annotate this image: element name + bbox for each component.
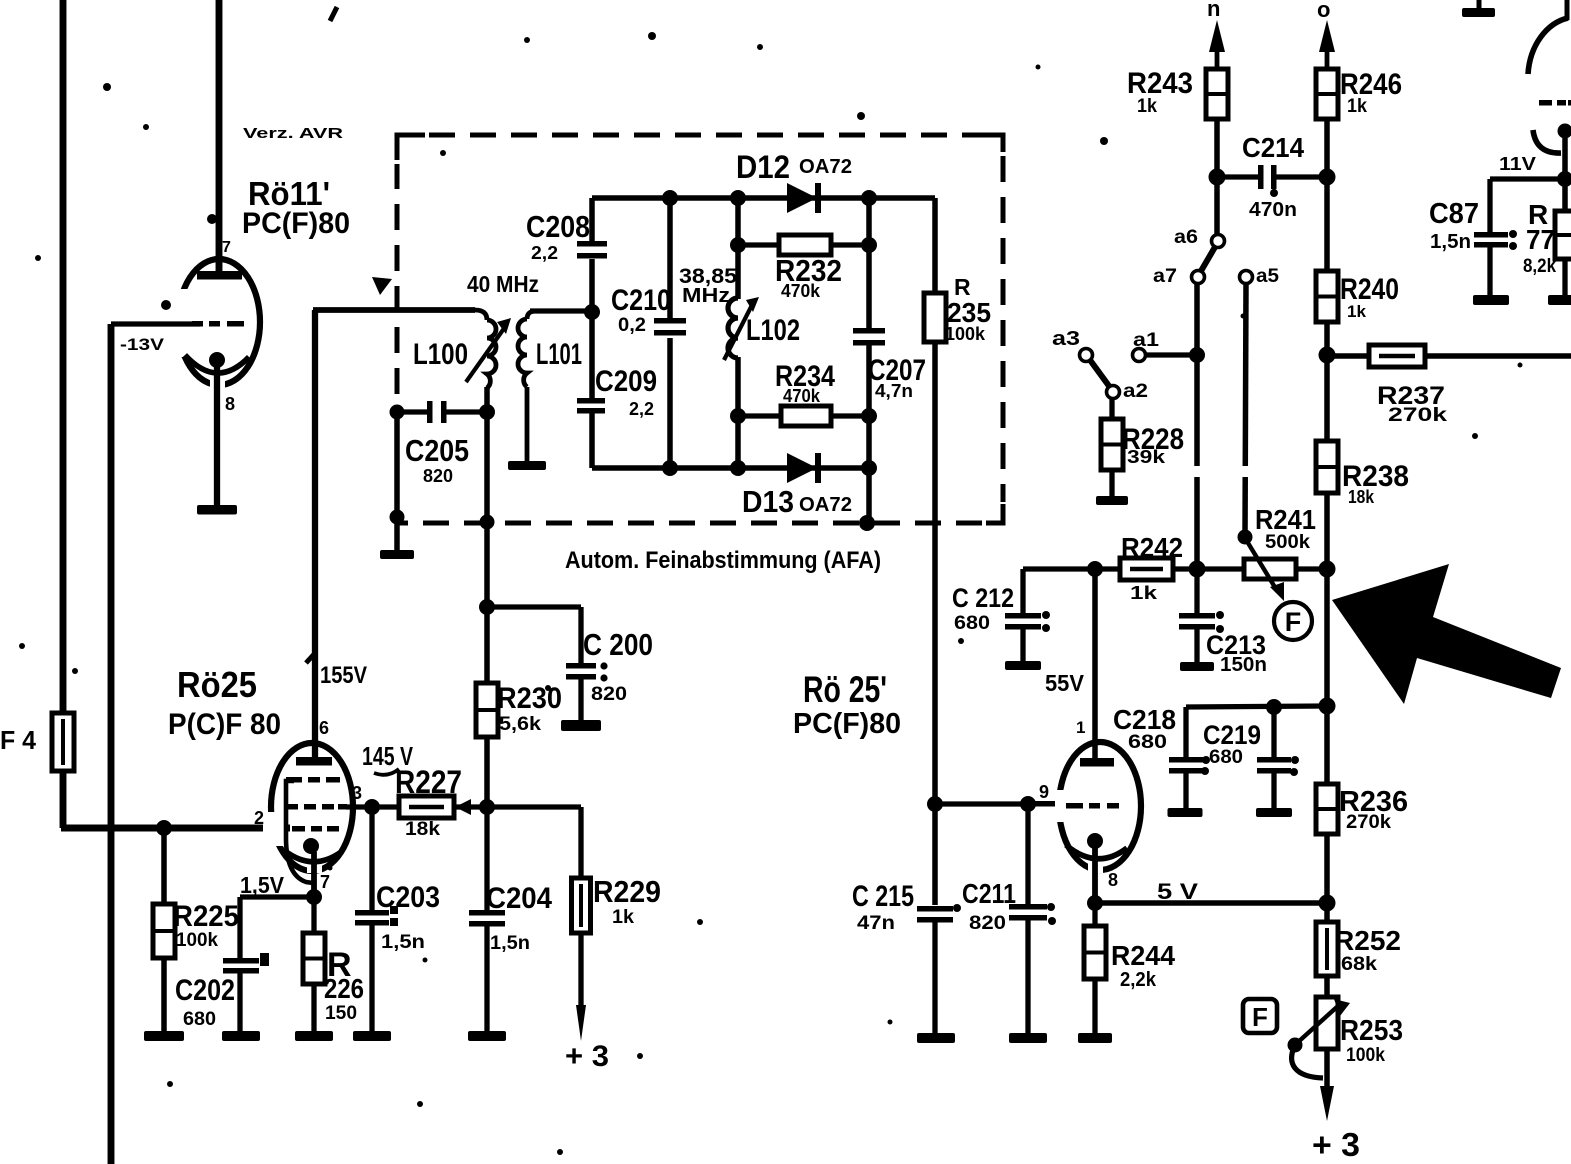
junction C205 right <box>479 404 495 420</box>
wire R234 left lead <box>738 413 781 418</box>
svg-text:0,2: 0,2 <box>618 315 646 336</box>
wire R230 column <box>484 524 490 807</box>
svg-text:Autom. Feinabstimmung (AFA): Autom. Feinabstimmung (AFA) <box>565 547 881 574</box>
svg-text:R252: R252 <box>1334 925 1401 956</box>
svg-text:a5: a5 <box>1256 266 1279 287</box>
svg-text:4,7n: 4,7n <box>875 381 913 401</box>
tube Rö25' PC(F)80 <box>1050 742 1141 873</box>
junction C214 right <box>1319 169 1336 186</box>
wire R77 to ground <box>1562 259 1567 296</box>
ground R226 <box>295 1031 333 1041</box>
svg-text:R229: R229 <box>593 874 661 909</box>
svg-text:a3: a3 <box>1052 328 1080 350</box>
junction C203 top <box>364 799 380 815</box>
ground below AFA box left <box>380 550 414 559</box>
resistor F4 <box>52 713 74 771</box>
svg-text:OA72: OA72 <box>799 494 852 516</box>
Rö25 anode plate <box>296 757 332 766</box>
capacitor C212 <box>1005 613 1041 630</box>
wire Rö25 anode (pin6) up to tank <box>312 310 318 758</box>
svg-text:77: 77 <box>1526 224 1555 255</box>
svg-text:2,2: 2,2 <box>531 243 558 263</box>
junction a5 wiper <box>1238 530 1253 545</box>
wire C200 top <box>578 607 583 663</box>
svg-text:PC(F)80: PC(F)80 <box>242 207 350 240</box>
svg-text:a6: a6 <box>1174 227 1198 248</box>
junction top C210 <box>662 190 678 206</box>
Rö25 cathode arc <box>285 851 341 862</box>
tube Rö11' PC(F)80 <box>170 259 260 388</box>
wire left bus vertical <box>60 0 67 828</box>
wire to C211 <box>1025 804 1030 904</box>
svg-text:C211: C211 <box>962 878 1016 909</box>
wire a1 to bus <box>1146 352 1197 357</box>
svg-text:-13V: -13V <box>120 335 165 354</box>
wire to C218/C219 <box>1186 706 1327 707</box>
wire R236 to R252 <box>1324 834 1330 922</box>
svg-text:Rö25: Rö25 <box>177 664 257 705</box>
svg-text:155V: 155V <box>320 662 367 689</box>
C202 side mark <box>260 953 269 966</box>
wire pin9 node <box>935 801 1030 806</box>
wire R225 to ground <box>161 958 167 1032</box>
ground R228 <box>1096 496 1128 505</box>
capacitor C203 <box>355 910 389 926</box>
arrow up o <box>1319 20 1335 69</box>
svg-text:18k: 18k <box>1348 487 1375 507</box>
svg-text:1k: 1k <box>612 907 634 928</box>
junction cathode/R244 <box>1087 895 1103 911</box>
svg-text:680: 680 <box>954 613 990 634</box>
resistor R236 <box>1316 784 1338 834</box>
resistor R227 <box>399 796 454 818</box>
junction L101/C208 node <box>584 304 600 320</box>
wire tank top feed <box>313 307 475 313</box>
wire a7 down to R242 node <box>1194 284 1200 569</box>
wire Rö25' cathode to 5V node <box>1092 848 1098 903</box>
svg-text:L102: L102 <box>746 314 800 347</box>
svg-text:2,2k: 2,2k <box>1120 969 1157 991</box>
svg-text:820: 820 <box>969 913 1006 934</box>
svg-text:7: 7 <box>320 872 330 892</box>
resistor R244 <box>1084 926 1106 979</box>
svg-text:8,2k: 8,2k <box>1523 256 1556 277</box>
svg-text:R225: R225 <box>173 900 239 933</box>
svg-text:F 4: F 4 <box>0 725 37 755</box>
junction 5V right <box>1319 895 1336 912</box>
ground C204 <box>468 1031 506 1041</box>
ground R244 <box>1078 1033 1112 1043</box>
svg-text:7: 7 <box>222 239 231 256</box>
AFA dashed box <box>397 135 1003 523</box>
specks <box>103 83 111 91</box>
svg-text:470k: 470k <box>781 281 821 301</box>
svg-text:55V: 55V <box>1045 670 1085 696</box>
svg-text:P(C)F 80: P(C)F 80 <box>168 708 281 741</box>
wire C210 column <box>667 198 673 468</box>
wire R253 down <box>1324 1049 1330 1090</box>
svg-text:D12: D12 <box>736 149 790 185</box>
svg-text:18k: 18k <box>405 819 440 840</box>
svg-text:C209: C209 <box>595 365 657 398</box>
svg-text:C205: C205 <box>405 433 469 468</box>
svg-text:MHz: MHz <box>682 285 730 307</box>
C218 side dots <box>1202 756 1210 764</box>
svg-text:1: 1 <box>1076 718 1085 737</box>
switch contact a6 <box>1212 235 1225 248</box>
resistor R226 <box>303 933 325 984</box>
resistor R240 <box>1316 271 1338 322</box>
arrow +3 (R229) <box>576 1005 586 1041</box>
svg-text:270k: 270k <box>1388 405 1448 426</box>
Rö25' cathode dot <box>1087 833 1103 849</box>
junction C219 <box>1266 699 1282 715</box>
gap for C207 plates <box>863 328 875 344</box>
ground C211 <box>1009 1033 1047 1043</box>
swoosh under 145V <box>374 769 399 775</box>
svg-text:1k: 1k <box>1137 96 1157 117</box>
resistor R237 <box>1369 345 1425 367</box>
R241 wiper arrow <box>1245 538 1284 601</box>
svg-text:C202: C202 <box>175 974 235 1007</box>
inductor L102 (variable) <box>728 298 738 358</box>
svg-text:+ 3: + 3 <box>1312 1126 1360 1163</box>
ground C219 <box>1256 808 1292 817</box>
svg-text:40 MHz: 40 MHz <box>467 271 539 297</box>
wire 11V node <box>1490 176 1571 181</box>
wire C218 top <box>1183 707 1188 757</box>
diode D12 OA72 <box>787 183 821 213</box>
junction R242 right <box>1189 561 1206 578</box>
Rö11 cathode arc <box>185 355 249 373</box>
svg-text:1,5V: 1,5V <box>240 872 285 898</box>
partial tube (top right, cut) <box>1528 18 1568 74</box>
resistor R229 <box>572 878 591 933</box>
wire to R226 <box>311 897 316 933</box>
wire C219 to ground <box>1271 773 1276 809</box>
svg-text:n: n <box>1207 0 1220 21</box>
switch contact a2 <box>1107 386 1120 399</box>
wire Rö11 cathode to ground <box>214 366 220 506</box>
Rö11 cathode dot <box>209 352 225 368</box>
svg-text:150n: 150n <box>1220 654 1267 676</box>
switch contact a1 <box>1133 349 1146 362</box>
wire R241 right lead <box>1296 566 1327 571</box>
Rö11 anode plate <box>197 271 242 280</box>
svg-text:5,6k: 5,6k <box>499 714 541 735</box>
svg-text:C208: C208 <box>526 209 590 244</box>
wire a2 to R228 <box>1109 398 1114 419</box>
wire R244 to ground <box>1092 979 1097 1034</box>
capacitor C213 <box>1179 613 1215 630</box>
junction R225 top <box>156 820 172 836</box>
capacitor C87 <box>1474 232 1508 248</box>
partial tube cathode dot <box>1558 124 1571 139</box>
inductor L101 <box>518 311 536 462</box>
capacitor C214 <box>1258 165 1277 189</box>
resistor R238 <box>1316 441 1338 493</box>
wire R226 to ground <box>311 984 316 1032</box>
wire C204 to ground <box>484 926 489 1032</box>
wire L101 top to C208 node <box>530 308 594 313</box>
junction bottom L102 <box>730 460 746 476</box>
svg-text:680: 680 <box>1209 747 1243 768</box>
junction at box bottom <box>859 515 875 531</box>
svg-text:1k: 1k <box>1130 583 1158 603</box>
wire R253 wiper return <box>1292 1045 1323 1078</box>
wire to C87 <box>1487 179 1492 232</box>
Rö25' anode plate <box>1080 758 1114 767</box>
resistor R235 <box>924 293 946 342</box>
svg-text:R242: R242 <box>1121 532 1183 563</box>
wire main column R240-R241 <box>1324 322 1330 569</box>
wire top rail <box>592 195 935 201</box>
capacitor C207 <box>853 328 885 346</box>
switch contact a5 <box>1240 271 1253 284</box>
(F) circle <box>1274 602 1312 640</box>
svg-text:270k: 270k <box>1346 812 1391 833</box>
wire 5V line <box>1095 900 1327 906</box>
svg-text:500k: 500k <box>1265 532 1310 553</box>
svg-text:o: o <box>1317 0 1330 22</box>
junction top L102 <box>730 190 746 206</box>
C211 side dots <box>1047 903 1055 911</box>
svg-text:8: 8 <box>225 394 235 414</box>
wire R242-R241 <box>1173 566 1244 571</box>
svg-text:C218: C218 <box>1113 704 1176 735</box>
grid lead dashes into tube <box>1030 801 1055 807</box>
resistor R252 <box>1316 922 1338 976</box>
svg-text:R253: R253 <box>1340 1015 1403 1047</box>
svg-text:L100: L100 <box>413 338 468 371</box>
wire to C203 <box>369 807 374 910</box>
wire C87 to ground <box>1487 247 1492 296</box>
resistor R253 <box>1316 997 1338 1049</box>
gap for C208 plates <box>586 241 598 259</box>
junction R234 right <box>861 408 877 424</box>
wire bottom rail <box>592 465 869 471</box>
wire to R229 <box>487 804 581 809</box>
Rö11 grid dashes <box>192 321 244 327</box>
svg-text:8: 8 <box>1108 870 1118 890</box>
switch lever a6-a7 <box>1201 247 1215 271</box>
svg-text:5 V: 5 V <box>1157 879 1198 904</box>
junction R253 wiper <box>1288 1038 1303 1053</box>
svg-text:1,5n: 1,5n <box>1430 231 1471 253</box>
wire R228 to ground <box>1109 470 1114 497</box>
svg-text:C 212: C 212 <box>952 583 1014 613</box>
arrow +3 (bottom) <box>1320 1086 1334 1121</box>
resistor R225 <box>153 904 175 958</box>
junction C211 <box>1020 796 1036 812</box>
wire to R244 <box>1092 903 1097 926</box>
svg-text:R241: R241 <box>1255 504 1316 535</box>
junction D13 cathode <box>861 460 877 476</box>
junction C205 left <box>390 405 405 420</box>
svg-text:820: 820 <box>591 684 627 705</box>
Rö11 pin dot <box>161 300 171 310</box>
arrow on R227 right lead <box>455 799 471 815</box>
resistor R242 <box>1120 558 1173 580</box>
wire C219 top <box>1271 707 1276 757</box>
svg-text:C210: C210 <box>611 284 671 317</box>
Rö25 internal g3-cathode link <box>286 781 313 883</box>
resistor R241 (pot) <box>1244 559 1296 579</box>
svg-text:2: 2 <box>254 808 264 828</box>
capacitor C209 <box>577 398 605 414</box>
C203 side marks <box>390 906 398 914</box>
junction R232 right <box>861 237 877 253</box>
wire Rö25 cathode to pin7 node <box>311 852 317 898</box>
svg-text:PC(F)80: PC(F)80 <box>793 708 901 740</box>
wire C214 left lead <box>1217 174 1261 179</box>
wire R227 right lead <box>454 804 487 809</box>
diode D13 OA72 <box>787 453 821 483</box>
capacitor C205 <box>427 401 447 423</box>
wire R243 to switch a6 <box>1214 119 1220 236</box>
wire main column to R236 <box>1324 569 1330 784</box>
junction C200 node <box>479 599 495 615</box>
svg-text:C204: C204 <box>486 882 552 915</box>
svg-text:39k: 39k <box>1127 447 1166 467</box>
wire -13V line vertical <box>108 324 115 1164</box>
wire L102 column lower <box>735 357 741 468</box>
switch lever a3-a2 <box>1090 360 1109 386</box>
ground Rö11 cathode <box>197 505 237 515</box>
wire to C200 <box>487 604 581 609</box>
junction at box bottom edge <box>480 515 495 530</box>
svg-text:226: 226 <box>324 973 364 1004</box>
svg-text:11V: 11V <box>1499 154 1536 174</box>
C214 tail dot <box>1270 189 1278 197</box>
junction R242 left <box>1087 561 1103 577</box>
Rö25 cathode dot <box>303 838 319 854</box>
wire R232 right lead <box>829 242 869 247</box>
L102 arrow <box>724 297 759 360</box>
Rö25 g2 dashes <box>286 804 347 810</box>
capacitor C210 <box>654 318 686 336</box>
resistor R230 <box>476 683 498 737</box>
wire C203 to ground <box>369 925 374 1032</box>
ground C203 <box>353 1031 391 1041</box>
apostrophe mark <box>330 7 337 21</box>
wire C211 to ground <box>1025 920 1030 1034</box>
svg-text:150: 150 <box>325 1003 357 1024</box>
gap for C210 plates <box>664 318 676 338</box>
junction 11V <box>1557 171 1571 187</box>
small ground top right <box>1462 0 1495 17</box>
capacitor C218 <box>1169 757 1203 774</box>
resistor R243 <box>1206 69 1228 119</box>
wire to R225 <box>161 828 167 904</box>
junction R234 left <box>730 408 746 424</box>
L100 arrow <box>466 318 511 382</box>
marker triangle at box edge <box>372 277 392 295</box>
junction R232 left <box>730 237 746 253</box>
wire to C202 <box>237 897 242 958</box>
wire box-left node to ground <box>394 412 400 551</box>
capacitor C202 <box>223 958 259 974</box>
Rö25 g1 dashes <box>292 826 339 832</box>
svg-text:L101: L101 <box>536 338 582 371</box>
svg-text:680: 680 <box>1128 732 1167 753</box>
capacitor C204 <box>469 910 505 927</box>
partial tube grid dashes <box>1539 100 1571 106</box>
svg-text:+ 3: + 3 <box>565 1040 609 1073</box>
junction pin7/R226 <box>306 889 322 905</box>
ground C213 <box>1180 662 1214 671</box>
svg-text:680: 680 <box>183 1009 216 1030</box>
partial tube cathode arc <box>1533 130 1561 153</box>
svg-text:1,5n: 1,5n <box>490 933 530 954</box>
capacitor C200 <box>566 663 596 680</box>
svg-text:Verz. AVR: Verz. AVR <box>243 125 343 142</box>
svg-text:R227: R227 <box>395 764 462 800</box>
resistor R228 <box>1101 419 1123 470</box>
ground C87 <box>1473 295 1509 305</box>
wire cathode to R77 <box>1562 138 1568 211</box>
wire C215 to ground <box>932 922 937 1034</box>
resistor R77 <box>1555 211 1571 259</box>
junction R227/R230 <box>479 799 495 815</box>
C212 side dots <box>1042 611 1050 619</box>
Rö25' grid dashes <box>1066 803 1119 809</box>
R253 wiper arrow <box>1297 999 1350 1043</box>
wire R229 top <box>578 807 583 878</box>
svg-text:1k: 1k <box>1347 302 1367 321</box>
ground R77 <box>1548 295 1571 305</box>
switch contact a7 <box>1192 271 1205 284</box>
ground R225 <box>144 1031 184 1041</box>
junction bottom C210 <box>662 460 678 476</box>
wire Rö25' anode (pin1) from R242 node <box>1092 569 1098 760</box>
capacitor C219 <box>1257 757 1291 774</box>
junction C218/C219 feed <box>1319 698 1336 715</box>
wire R246 down <box>1324 119 1330 271</box>
wire C214 right lead <box>1276 174 1327 179</box>
C213 side dots <box>1216 611 1224 619</box>
svg-text:6: 6 <box>319 718 329 738</box>
wire to C212 <box>1020 569 1025 613</box>
gap for C209 plates <box>586 398 598 412</box>
svg-text:F: F <box>1252 1002 1268 1032</box>
svg-text:100k: 100k <box>176 930 218 951</box>
wire R235 column down to pin9 node <box>932 198 938 905</box>
capacitor C215 <box>917 906 953 923</box>
wire R252 to R253 <box>1324 976 1330 997</box>
wire C205 right lead <box>446 409 489 414</box>
svg-text:D13: D13 <box>742 484 794 519</box>
svg-text:9: 9 <box>1039 782 1049 802</box>
svg-text:Rö 25': Rö 25' <box>803 669 887 710</box>
junction R237 <box>1319 347 1336 364</box>
wire R234 right lead <box>829 413 869 418</box>
tube Rö25 P(C)F80 <box>263 743 353 873</box>
svg-text:820: 820 <box>423 466 453 486</box>
svg-text:100k: 100k <box>1346 1045 1385 1066</box>
junction C214 left <box>1209 169 1226 186</box>
svg-text:C 200: C 200 <box>583 627 653 662</box>
C215 side dot <box>953 904 961 912</box>
capacitor C208 <box>577 241 607 259</box>
wire C213 to ground <box>1194 629 1199 663</box>
svg-text:470k: 470k <box>783 386 821 406</box>
ground C200 <box>561 720 601 731</box>
svg-text:OA72: OA72 <box>799 156 852 178</box>
wire C212 to ground <box>1020 629 1025 662</box>
svg-text:C203: C203 <box>376 881 440 914</box>
svg-text:47n: 47n <box>857 913 895 934</box>
